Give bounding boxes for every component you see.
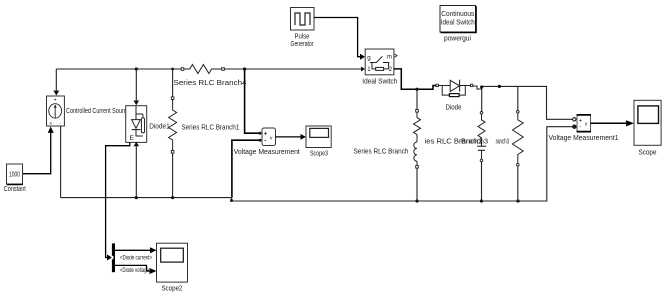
- diode Diode: [436, 80, 473, 97]
- wire down to resistor branch3: [517, 86, 519, 110]
- wire top bus down to VM plus: [245, 69, 259, 133]
- svg-text:m: m: [387, 54, 392, 61]
- svg-text:Scope2: Scope2: [162, 285, 183, 292]
- svg-text:Scope3: Scope3: [310, 150, 328, 157]
- wire Pulse Generator to Ideal Switch g: [314, 18, 361, 57]
- wire VM minus vertical: [232, 140, 259, 197]
- wire Ideal Switch output to diode bus: [394, 69, 436, 89]
- node junction top bus to Diode1: [135, 67, 138, 70]
- bottom bus left segment: [61, 197, 232, 199]
- wire down to capacitor branch: [481, 89, 483, 112]
- wire Voltage Measurement1 to Scope: [591, 122, 628, 124]
- node junction bottom bus resistor branch3: [516, 199, 519, 202]
- wire top bus down to Controlled Current Source: [55, 69, 57, 91]
- wire Diode1 m output to bus selector: [106, 143, 130, 258]
- node junction top bus to Series RLC Branch1: [171, 68, 174, 71]
- svg-text:E: E: [130, 135, 135, 142]
- svg-text:powergui: powergui: [444, 36, 471, 43]
- svg-text:<Diode voltage>: <Diode voltage>: [120, 267, 152, 274]
- wire RL branch to bottom bus: [416, 168, 418, 201]
- svg-text:1000: 1000: [9, 172, 20, 179]
- svg-text:Voltage Measurement: Voltage Measurement: [234, 149, 300, 156]
- op-amp style block Voltage Measurement: [262, 128, 276, 146]
- wire diode cathode bus to VM1 plus: [473, 86, 573, 119]
- wire capacitor branch to bottom bus: [481, 162, 483, 201]
- svg-text:g: g: [367, 55, 371, 62]
- Controlled Current Source block: [47, 96, 65, 126]
- wire Voltage Measurement to Scope3: [276, 136, 302, 138]
- wire Constant to Controlled Current Source s input: [23, 133, 51, 174]
- svg-text:Ideal Switch: Ideal Switch: [441, 20, 475, 27]
- bottom bus step and right segment: [232, 127, 573, 201]
- port circle VM1 plus: [573, 118, 576, 121]
- node junction at capacitor branch: [480, 85, 483, 88]
- node junction bottom bus Series RLC Branch1: [171, 196, 174, 199]
- bus selector bar: [111, 243, 115, 272]
- wire down to RL branch: [416, 89, 418, 110]
- Constant block: [7, 164, 23, 185]
- Ideal Switch U1: [365, 49, 397, 75]
- svg-text:Scope: Scope: [639, 150, 657, 157]
- wire Series RLC Branch1 to bottom bus: [172, 153, 174, 198]
- resistor Series RLC Branch4: [181, 65, 224, 74]
- wire bus selector output 2 to Scope2: [115, 265, 150, 271]
- svg-text:Diode: Diode: [446, 104, 462, 111]
- node junction bottom bus RL branch: [415, 199, 418, 202]
- svg-text:Voltage Measurement1: Voltage Measurement1: [549, 135, 619, 142]
- node junction: [498, 85, 501, 88]
- wire bus selector output 1 to Scope2: [115, 249, 151, 251]
- inductor Series RLC Branch (R-L): [414, 110, 421, 169]
- svg-text:Series RLC Branch1: Series RLC Branch1: [181, 124, 239, 131]
- svg-text:Branch3: Branch3: [461, 139, 488, 146]
- svg-text:1: 1: [367, 66, 371, 73]
- wire top bus to Series RLC Branch1: [172, 69, 174, 97]
- svg-text:Controlled Current Source: Controlled Current Source: [66, 108, 130, 115]
- svg-text:-: -: [579, 125, 581, 131]
- resistor Series RLC Branch1: [169, 97, 177, 153]
- top bus wire: [56, 68, 361, 70]
- wire Controlled Current Source minus terminal to bottom bus: [60, 126, 62, 198]
- port circle VM1 minus: [573, 125, 576, 128]
- node junction bottom bus Diode1: [135, 196, 138, 199]
- svg-text:Series RLC Branch: Series RLC Branch: [354, 148, 409, 155]
- capacitor branch R-C: [477, 112, 486, 162]
- svg-text:Constant: Constant: [4, 186, 26, 193]
- resistor branch3: [513, 111, 524, 167]
- wire Diode1 bottom to bottom bus: [135, 146, 137, 198]
- svg-text:Series RLC Branch4: Series RLC Branch4: [174, 80, 247, 87]
- powergui block: [440, 6, 476, 33]
- wire top bus down to Diode1: [135, 69, 137, 101]
- arrow into switch port 1: [361, 67, 365, 72]
- Pulse Generator block: [291, 8, 315, 31]
- svg-text:<Diode current>: <Diode current>: [120, 255, 152, 262]
- node junction bottom bus capacitor branch: [480, 199, 483, 202]
- node junction top bus to Voltage Measurement: [243, 67, 246, 70]
- svg-text:+: +: [264, 132, 268, 138]
- svg-text:Continuous: Continuous: [441, 11, 474, 18]
- svg-text:+: +: [579, 118, 583, 124]
- svg-text:Ideal Switch: Ideal Switch: [362, 78, 397, 85]
- svg-text:Pulse: Pulse: [295, 34, 310, 41]
- svg-text:-: -: [264, 138, 266, 144]
- node junction switch bus to RL branch: [415, 88, 418, 91]
- op-amp style block Voltage Measurement1: [577, 115, 591, 132]
- Scope block: [634, 100, 661, 145]
- wire resistor branch3 to bottom bus: [517, 166, 519, 201]
- svg-text:Generator: Generator: [291, 41, 314, 48]
- svg-text:2: 2: [389, 66, 393, 73]
- svg-text:+: +: [53, 98, 56, 104]
- diode Diode1: [126, 106, 147, 143]
- svg-text:ranch3: ranch3: [496, 139, 510, 146]
- Scope2 block: [157, 243, 188, 282]
- svg-text:Diode1: Diode1: [149, 123, 170, 130]
- Scope3 block: [306, 126, 331, 148]
